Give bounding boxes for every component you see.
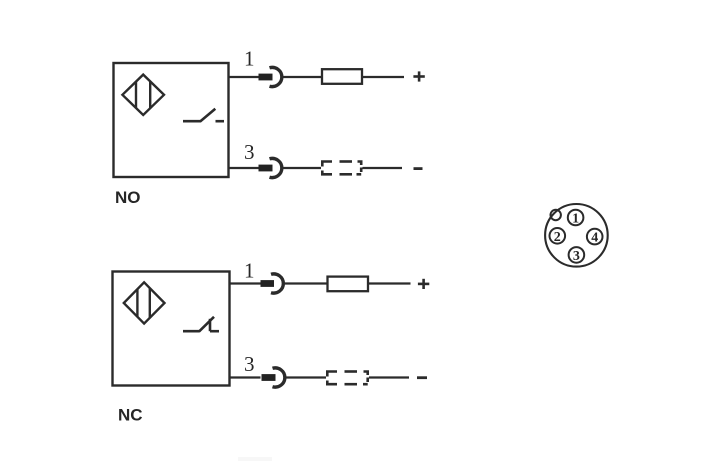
socket arc NO pin3 (270, 158, 282, 177)
NO switch contact symbol (183, 109, 224, 122)
svg-text:NC: NC (118, 406, 143, 425)
svg-text:3: 3 (244, 140, 255, 164)
connector pin 4 circle (587, 229, 603, 246)
wire NC pin3 to minus (369, 376, 409, 378)
svg-text:4: 4 (591, 231, 598, 246)
wire NC pin1 to plus (368, 282, 411, 284)
sensor body box NO (114, 63, 229, 177)
connector pin contact (filled) NO pin3 (259, 165, 273, 172)
svg-text:2: 2 (554, 230, 561, 245)
socket arc NO pin1 (270, 67, 282, 86)
load resistor box NC (328, 277, 369, 292)
wire NO pin3 to minus (363, 167, 403, 169)
wire pin1 NC from box (230, 282, 261, 284)
svg-text:NO: NO (115, 188, 141, 207)
connector pin 2 circle (550, 228, 566, 245)
load resistor box NO (322, 69, 362, 84)
wire NO pin3 to dashed load (282, 167, 321, 169)
socket arc NC pin3 (273, 368, 285, 387)
connector keying notch (551, 210, 561, 220)
svg-text:3: 3 (244, 352, 255, 376)
svg-text:1: 1 (572, 212, 579, 227)
wire NO pin1 to load (282, 76, 322, 78)
wire pin3 NC from box (230, 376, 261, 378)
connector face: outer circle (545, 204, 608, 267)
svg-text:1: 1 (244, 47, 255, 71)
connector pin contact (filled) NO pin1 (259, 74, 273, 81)
proximity sensor diamond symbol (NC unit) (124, 282, 165, 323)
socket arc NC pin1 (271, 274, 283, 293)
svg-text:3: 3 (573, 249, 580, 264)
wire pin3 NO from box (229, 167, 259, 169)
wire pin1 NO from box (229, 76, 259, 78)
NC switch contact symbol (183, 317, 219, 332)
minus terminal NC (417, 376, 427, 379)
svg-text:1: 1 (244, 259, 255, 283)
wire NC pin1 to load (283, 282, 327, 284)
plus terminal NO (413, 71, 424, 81)
sensor body box NC (113, 272, 230, 386)
minus terminal NO (414, 167, 423, 170)
plus terminal NC (418, 279, 429, 289)
wire NC pin3 to dashed load (285, 376, 326, 378)
faint watermark remnant bottom (238, 457, 272, 461)
connector pin 1 circle (568, 210, 584, 227)
proximity sensor diamond symbol (NO unit) (122, 75, 164, 115)
dashed load box NO (322, 162, 361, 175)
connector pin 3 circle (569, 247, 585, 264)
connector pin contact (filled) NC pin1 (261, 280, 275, 287)
dashed load box NC (327, 372, 367, 385)
connector pin contact (filled) NC pin3 (262, 374, 276, 381)
wire NO pin1 to plus (362, 76, 404, 78)
